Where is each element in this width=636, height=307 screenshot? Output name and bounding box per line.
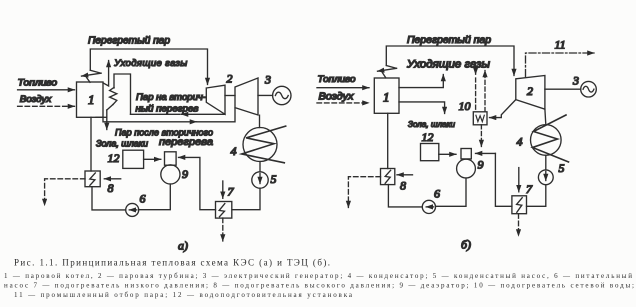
turbine LP section	[235, 78, 258, 115]
svg-text:Зола, шлаки: Зола, шлаки	[408, 119, 455, 129]
extraction arrow into heater8	[397, 174, 413, 176]
svg-text:б): б)	[461, 238, 471, 252]
deaerator 9	[457, 159, 476, 178]
boiler bottom stub	[96, 116, 107, 118]
deaerator head	[165, 152, 177, 165]
svg-text:Уходящие газы: Уходящие газы	[406, 59, 490, 71]
svg-text:Топливо: Топливо	[18, 77, 58, 87]
turbine 2	[516, 76, 545, 110]
svg-text:перегрева: перегрева	[159, 136, 213, 148]
ash slag arrow down	[106, 110, 108, 130]
heater 7 LP heater	[512, 196, 527, 214]
svg-text:3: 3	[264, 73, 271, 87]
wire: reheat return line to LP turbine	[103, 117, 197, 122]
reheater coil	[110, 88, 117, 105]
flue duct bracket	[114, 74, 131, 114]
flue gas arrow up	[103, 61, 108, 87]
condenser 4	[243, 128, 277, 162]
heater8 drain dashed	[348, 177, 380, 208]
deaerator 9	[161, 165, 180, 184]
heater7 drain dashed	[518, 214, 520, 236]
wire: superheated steam pipe boiler-to-HP-turbine	[90, 49, 207, 85]
wire: feedwater riser to boiler	[90, 117, 92, 171]
svg-text:12: 12	[422, 130, 434, 144]
water treatment unit 12	[421, 144, 439, 161]
svg-text:Уходящие газы: Уходящие газы	[113, 58, 187, 69]
wire: feedwater riser to boiler	[387, 113, 389, 168]
svg-text:Рис. 1.1. Принципиальная тепло: Рис. 1.1. Принципиальная тепловая схема …	[14, 258, 330, 268]
pump 5 condensate	[252, 172, 268, 188]
condenser 4	[531, 125, 562, 156]
svg-text:11 — промышленный отбор пара;: 11 — промышленный отбор пара; 12 — водоп…	[14, 291, 353, 299]
svg-text:11: 11	[555, 38, 566, 52]
svg-text:9: 9	[182, 167, 188, 181]
wire: condenser to pump5	[259, 162, 261, 172]
svg-text:Воздух: Воздух	[319, 92, 355, 103]
svg-text:Пар на вторич-: Пар на вторич-	[136, 92, 206, 102]
svg-text:1 — паровой котел, 2 — паровая: 1 — паровой котел, 2 — паровая турбина; …	[4, 272, 632, 280]
svg-text:Зола, шлаки: Зола, шлаки	[96, 139, 148, 149]
air arrow (dashed)	[18, 105, 75, 107]
wire: reheat supply line (HP exhaust to reheater)	[182, 113, 226, 115]
district heating heater 10	[473, 112, 487, 125]
wire: turbine to condenser	[259, 115, 261, 127]
svg-text:8: 8	[108, 181, 114, 195]
svg-text:Воздух: Воздух	[20, 94, 52, 104]
shaft HP-LP	[225, 95, 235, 97]
svg-text:Перегретый пар: Перегретый пар	[407, 35, 491, 46]
svg-text:Топливо: Топливо	[318, 74, 356, 84]
svg-text:4: 4	[231, 144, 237, 158]
svg-text:5: 5	[559, 161, 565, 175]
shaft to generator	[545, 88, 581, 90]
svg-text:3: 3	[572, 74, 579, 88]
boiler 1	[374, 78, 399, 113]
wire: pump6 to heater8	[388, 185, 422, 207]
wire: box12 to deaerator arrow	[144, 158, 161, 160]
heater 8 HP heater	[85, 171, 100, 187]
heater8 drain dashed	[45, 179, 85, 206]
turbine 2 HP section	[206, 85, 225, 114]
extraction arrow into heater7	[518, 168, 520, 192]
wire: extraction to heater10	[490, 100, 516, 118]
boiler flame zigzag	[386, 66, 396, 69]
extraction arrow into heater8	[104, 178, 120, 180]
svg-text:8: 8	[400, 179, 406, 193]
extraction arrow into heater7	[222, 181, 224, 198]
svg-text:ный перегрев: ный перегрев	[136, 104, 199, 114]
generator 3	[581, 81, 597, 97]
wire: pump5 down and left to heater7	[232, 188, 260, 210]
industrial steam extraction 11 (dash-dot)	[526, 53, 595, 77]
wire: box12 to deaerator arrow	[439, 153, 456, 155]
wire: riser from heater7	[495, 153, 512, 206]
svg-text:6: 6	[434, 187, 440, 201]
wire: condensate to deaerator	[179, 157, 216, 209]
pump 6 feed pump	[422, 200, 435, 213]
shaft to generator	[258, 94, 273, 96]
wire: superheated steam pipe to turbine	[386, 46, 514, 76]
svg-text:1: 1	[88, 92, 95, 107]
svg-text:4: 4	[517, 135, 523, 149]
heater10 drain dashed to deaerator	[480, 125, 482, 147]
svg-text:Перегретый пар: Перегретый пар	[88, 36, 170, 47]
svg-text:6: 6	[140, 192, 146, 206]
wire: condenser to pump5	[545, 155, 547, 170]
svg-text:1: 1	[383, 90, 390, 105]
generator 3	[273, 86, 291, 104]
wire: heater7 to pump5	[527, 185, 546, 207]
district water supply dashed down	[475, 69, 477, 75]
wire: turbine to condenser	[544, 109, 547, 124]
wire: deaerator down to pump6	[436, 178, 467, 206]
svg-text:насос 7 — подогреватель низко: насос 7 — подогреватель низкого давления…	[4, 282, 634, 290]
heater7 drain dashed	[222, 218, 224, 241]
deaerator head	[461, 149, 471, 159]
air arrow (dashed)	[317, 102, 369, 104]
boiler flame zigzag	[90, 70, 101, 73]
heater 7 LP heater	[216, 202, 232, 219]
fuel arrow	[18, 89, 75, 91]
svg-text:7: 7	[228, 185, 235, 199]
fuel arrow	[317, 87, 369, 89]
water treatment unit 12	[123, 150, 144, 168]
pump 5 condensate	[538, 170, 553, 185]
svg-text:9: 9	[478, 158, 484, 172]
ash line right and down	[399, 102, 445, 114]
flue gas arrow up	[399, 75, 443, 88]
pump 6 feed pump	[126, 203, 139, 216]
wire: pump6 to heater8	[92, 187, 126, 210]
svg-text:2: 2	[227, 72, 233, 86]
wire: condensate to deaerator arrow	[476, 152, 496, 154]
heater 8 HP heater	[381, 169, 395, 185]
svg-text:5: 5	[271, 172, 277, 186]
wire: deaerator down to pump6	[139, 184, 171, 210]
reheater outlet	[107, 105, 113, 111]
svg-text:а): а)	[178, 239, 188, 253]
boiler 1	[77, 82, 104, 117]
district water return dashed up	[484, 71, 486, 112]
svg-text:2: 2	[527, 84, 533, 98]
svg-text:10: 10	[459, 99, 471, 113]
svg-text:7: 7	[526, 182, 533, 196]
svg-text:12: 12	[108, 151, 120, 165]
